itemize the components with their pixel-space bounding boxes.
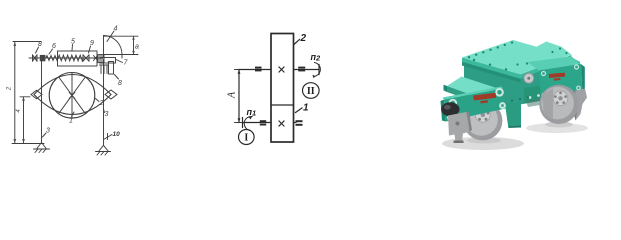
shaft I line left [243, 122, 272, 124]
body center column [505, 102, 521, 126]
label 3 right post [104, 110, 109, 119]
gear mark upper [279, 67, 284, 72]
right wheel [539, 85, 578, 124]
label 1 housing lower [296, 103, 310, 114]
shadow under right unit [526, 98, 546, 108]
label 10 with leader [104, 131, 121, 140]
gear mark lower [279, 121, 284, 126]
left pivot support [34, 143, 50, 153]
right unit front face [539, 64, 583, 99]
ground shadow right [526, 123, 588, 133]
body bolts [511, 96, 529, 101]
right pivot support [96, 145, 111, 155]
bracket edge [467, 111, 473, 131]
label 3 post [43, 128, 51, 138]
label 8 [36, 41, 43, 53]
right bracket [571, 89, 588, 121]
shaft II end tick [318, 65, 320, 75]
top plate front edge [462, 55, 572, 79]
main body front face [464, 58, 580, 108]
label 8 right [115, 75, 123, 88]
right unit corner bolts [542, 65, 581, 97]
end slider on right post [98, 55, 104, 64]
under-plate shadow band [462, 62, 521, 83]
column bottom edge [508, 125, 521, 128]
right 3d machine render [0, 0, 621, 159]
slider block on post [40, 55, 46, 61]
gearbox housing outline [271, 34, 294, 143]
comb contact block [100, 65, 109, 74]
rotor hub tick [69, 93, 75, 99]
shaft boss on body [524, 73, 534, 83]
label 7 [116, 60, 129, 67]
left nameplate text lines [473, 93, 496, 104]
dimension a top right [104, 36, 139, 54]
label 4 [107, 26, 118, 42]
label 6 [49, 43, 56, 54]
dimension line left inner [20, 97, 30, 143]
label 2 housing upper [295, 33, 307, 44]
slider housing 7 [100, 58, 116, 64]
main spring [58, 55, 83, 61]
coupling II right [298, 67, 305, 72]
shaft II line left [240, 69, 271, 71]
rotation arrow n1 [244, 116, 252, 130]
left beam top face [447, 77, 497, 99]
label 2 frame [96, 99, 104, 108]
bowtie joint 9 [83, 55, 89, 61]
flange bolts [529, 94, 540, 99]
spring housing 5 [58, 51, 98, 66]
right unit top face [527, 57, 581, 71]
right post [103, 60, 105, 146]
top rod [29, 57, 103, 59]
bracket bolt [456, 122, 460, 126]
wheel contact shadow left [467, 138, 501, 144]
housing divider [271, 104, 294, 106]
left beam front face [447, 86, 482, 105]
rotation arrow n2 [315, 63, 321, 77]
cam quarter sector 4 [104, 36, 123, 59]
right unit side face [581, 64, 585, 95]
middle kinematic diagram [0, 0, 621, 159]
guide plate [109, 62, 114, 75]
plate bolts [468, 41, 568, 70]
left gearbox front face [444, 89, 506, 122]
wheel contact shadow right [545, 122, 573, 128]
shaft I end tick [242, 118, 244, 128]
left wheel [463, 101, 502, 140]
bracket shoe [454, 141, 464, 144]
shaft I stub right [294, 122, 297, 124]
lens frame 2 [34, 75, 111, 115]
dimension A [227, 70, 245, 123]
ground shadow left [442, 137, 524, 150]
left gearbox corner bolts [448, 89, 505, 120]
right unit base flange [524, 85, 547, 104]
shaft II line right [294, 69, 320, 71]
under-plate step [464, 58, 473, 67]
right bracket shadow side [571, 91, 578, 121]
pulley I left [260, 120, 266, 125]
left post link 3 [41, 58, 43, 143]
black knob [441, 102, 459, 116]
left gearbox side strip [441, 100, 447, 122]
node I circled [239, 130, 255, 145]
small spring 6 [46, 56, 58, 61]
pulley I right [296, 120, 303, 126]
left bracket foot [448, 112, 470, 142]
left mechanism schematic [0, 0, 621, 159]
coupling II left [255, 67, 262, 72]
label 9 [89, 40, 95, 53]
label 1 rotor [69, 112, 74, 125]
right nameplate text lines [549, 73, 566, 81]
rotor spokes [59, 73, 86, 119]
rotor circle 1 [49, 73, 95, 119]
left beam end face [444, 85, 448, 92]
small cross joint [94, 56, 98, 61]
label 5 [71, 39, 75, 51]
bowtie joint 8 [33, 55, 38, 61]
dimension line left outer [12, 42, 44, 144]
left tip joint [31, 90, 42, 99]
top plate top face [462, 40, 572, 74]
node II circled [303, 83, 320, 99]
left gearbox top bevel [443, 87, 504, 100]
right tip joint [105, 90, 117, 99]
